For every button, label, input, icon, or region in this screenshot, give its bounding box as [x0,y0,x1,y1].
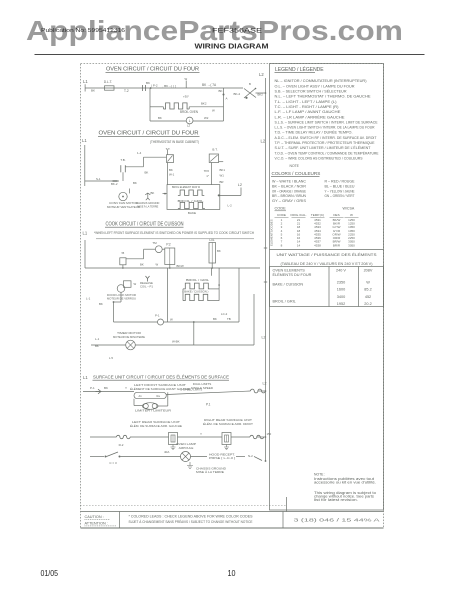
svg-text:BK: BK [169,168,173,172]
wire L2 drop right (section 3) [253,294,255,345]
wire jog to TM [126,258,144,260]
frame bottom solid border [81,527,384,529]
svg-text:150: 150 [267,432,272,436]
junction and wire to L2 (section 2) [218,194,220,196]
svg-text:A.D.C. – ELEM. SWITCH RF / INT: A.D.C. – ELEM. SWITCH RF / INTERR. DE SU… [275,136,378,140]
svg-text:ATTENTION :: ATTENTION : [85,522,108,526]
bake element coil [178,202,205,208]
svg-text:2350: 2350 [337,281,345,285]
svg-text:L.L.S. – OVEN LIGHT SWITCH / I: L.L.S. – OVEN LIGHT SWITCH / INTERR. DE … [275,126,375,130]
svg-text:452: 452 [365,295,371,299]
svg-text:BL – BLUE / BLEU: BL – BLUE / BLEU [325,184,355,188]
junction node BK [150,87,152,89]
svg-text:LIMITER / LIMITEUR: LIMITER / LIMITEUR [135,409,172,413]
svg-text:PRISE [ L-C-3 ]: PRISE [ L-C-3 ] [209,456,235,460]
wire main bus section 1 [85,87,223,89]
legend panel border [270,64,384,511]
svg-text:BROIL OVEN: BROIL OVEN [180,110,199,114]
svg-text:BK2: BK2 [201,102,207,106]
ground right rear [224,445,229,450]
row 2 wire mid [178,436,223,438]
relay drop wire (section 3) [167,268,169,322]
row 3 wire right [191,456,208,458]
oven lamp row (section 1) [150,120,186,122]
svg-text:+30°: +30° [183,95,189,99]
svg-text:W: W [350,213,353,217]
svg-text:2-SPEED LIMITS: 2-SPEED LIMITS [181,388,203,392]
svg-text:S-1: S-1 [96,177,101,181]
svg-text:L1: L1 [82,138,87,143]
relay contact pair 1 [142,85,144,91]
svg-text:T.P. – THERMAL PROTECTOR / PRO: T.P. – THERMAL PROTECTOR / PROTECTEUR TH… [275,141,375,145]
svg-text:MISE À LA TERRE: MISE À LA TERRE [137,204,158,208]
svg-text:D.L.T.: D.L.T. [104,80,112,84]
svg-text:CAUTION :: CAUTION : [85,515,104,519]
svg-text:ÉLÉM. DE SURFACE ARR. GAUCHE: ÉLÉM. DE SURFACE ARR. GAUCHE [130,423,182,428]
svg-text:Y: Y [200,432,202,436]
limiter connection wires [133,399,135,406]
broil element (section 1) [150,106,163,108]
svg-text:BR/R: BR/R [333,243,341,247]
chassis ground row 3 [187,462,193,469]
svg-text:BK: BK [213,317,217,321]
svg-text:Ra: Ra [157,394,161,398]
svg-text:BK1: BK1 [220,168,226,172]
svg-text:(THERMOSTAT IN BASE CABINET): (THERMOSTAT IN BASE CABINET) [150,140,199,144]
bus wire (section 3) [85,267,260,269]
svg-text:T.C. – LIGHT - RIGHT / LAMPE (: T.C. – LIGHT - RIGHT / LAMPE (R) [275,105,340,109]
svg-text:BROIL / GRIL: BROIL / GRIL [273,300,296,304]
svg-text:TM: TM [152,241,157,245]
svg-text:LC-2: LC-2 [221,312,228,316]
svg-text:Y – YELLOW / JAUNE: Y – YELLOW / JAUNE [325,189,355,193]
svg-text:T-2: T-2 [124,89,129,93]
footer cell divider 2 [282,512,284,529]
wattage table box [270,267,384,307]
svg-text:8: 8 [281,243,283,247]
release coil symbol [146,276,150,282]
svg-text:C = 3: C = 3 [109,461,117,465]
svg-text:T.O.D. – OVEN TEMP CONTROL / C: T.O.D. – OVEN TEMP CONTROL / COMMANDE DE… [275,150,379,155]
svg-text:B.T.: B.T. [212,148,217,152]
svg-text:L2: L2 [187,124,191,128]
svg-text:Publication No: 5995412316: Publication No: 5995412316 [41,28,125,34]
row 1 wire right [166,391,246,394]
svg-text:P-1: P-1 [155,314,160,318]
svg-text:( BAKE / CUISSON ): ( BAKE / CUISSON ) [183,290,209,294]
timer motor drop (section 3) [193,322,195,345]
footer dotted separator [81,505,287,507]
svg-text:NOTE :: NOTE : [314,473,325,477]
ground arrow symbol (section 2) [145,193,150,200]
svg-text:01/05: 01/05 [41,568,59,578]
svg-text:OVEN CIRCUIT / CIRCUIT DU FOUR: OVEN CIRCUIT / CIRCUIT DU FOUR [106,67,199,73]
svg-text:3 (18) 046 / 15 44% A: 3 (18) 046 / 15 44% A [294,518,380,523]
svg-text:1952: 1952 [337,302,345,306]
svg-text:NL – IGNITOR / COMMUTATEUR (IN: NL – IGNITOR / COMMUTATEUR (INTERRUPTEUR… [275,79,368,83]
svg-text:208V: 208V [364,269,373,273]
svg-text:L-2: L-2 [228,204,233,208]
svg-text:L: L [189,119,191,123]
svg-text:W: W [185,77,188,81]
svg-text:L1: L1 [83,375,88,380]
svg-text:T.L. – LIGHT - LEFT / LAMPE (L: T.L. – LIGHT - LEFT / LAMPE (L) [275,100,338,104]
svg-text:COIL – P1: COIL – P1 [140,284,153,288]
svg-text:L1: L1 [83,79,88,84]
svg-text:COOK CIRCUIT / CIRCUIT DE CUIS: COOK CIRCUIT / CIRCUIT DE CUISSON [106,222,184,228]
svg-text:AMPOULE: AMPOULE [179,446,194,450]
svg-text:W: W [170,318,173,322]
svg-text:L.R. – LR LAMP / ARRIÈRE GAUCH: L.R. – LR LAMP / ARRIÈRE GAUCHE [275,114,346,119]
svg-text:T.D. – TIME DELAY RELAY / DURÉ: T.D. – TIME DELAY RELAY / DURÉE TEMPO. [275,130,353,135]
svg-text:Y: Y [125,386,127,390]
svg-text:BK – BLACK / NOIR: BK – BLACK / NOIR [272,184,306,188]
svg-text:L01: L01 [209,238,215,242]
svg-text:W-1: W-1 [169,173,175,177]
svg-text:DES: DES [333,213,339,217]
svg-text:(TABLEAU DE 240 V / VALEURS EN: (TABLEAU DE 240 V / VALEURS EN 240 V ET … [281,262,373,266]
svg-text:B: B [249,82,251,86]
svg-text:GN – GREEN / VERT: GN – GREEN / VERT [325,194,356,198]
svg-text:BK: BK [91,89,95,93]
row 2 right resistor squiggle [250,435,264,438]
L2 bus tick marks [264,247,267,249]
svg-text:BK: BK [133,181,137,185]
svg-text:A1: A1 [139,394,143,398]
svg-text:accessoire ou kit en vue d'uti: accessoire ou kit en vue d'utilité. [314,480,376,484]
svg-text:40A: 40A [164,450,169,454]
row 1 right resistor squiggle [251,389,266,393]
svg-text:W: W [212,109,215,113]
svg-text:BR: BR [220,180,224,184]
left front surface unit (stadium) [134,392,166,398]
svg-text:W-BK: W-BK [172,340,180,344]
svg-text:L.5: L.5 [109,356,113,360]
svg-text:*WHEN LEFT FRONT SURFACE ELEME: *WHEN LEFT FRONT SURFACE ELEMENT IS SWIT… [94,231,255,235]
svg-text:COLORS / COULEURS: COLORS / COULEURS [272,171,321,176]
wire L1 drop (section 2) [84,145,86,186]
svg-text:list for latest revision.: list for latest revision. [314,498,358,502]
svg-text:CODE: CODE [275,206,287,211]
svg-text:240 V: 240 V [336,269,346,273]
svg-text:ELEMENTS/CODES: ELEMENTS/CODES [270,219,274,246]
svg-text:N-2: N-2 [248,454,253,458]
timer contact circle TM [155,246,162,253]
svg-text:LEGEND / LÉGENDE: LEGEND / LÉGENDE [275,66,324,73]
svg-text:L2: L2 [261,139,266,144]
svg-text:L2: L2 [259,72,264,77]
header rule [35,54,425,56]
svg-text:BROIL ELEMENT 3400 W: BROIL ELEMENT 3400 W [172,185,200,189]
svg-text:FEF356ASE: FEF356ASE [212,28,262,34]
svg-text:BK →( 7A: BK →( 7A [202,83,217,87]
oven element branch vertical right [223,88,225,121]
svg-text:1-4: 1-4 [137,151,142,155]
svg-text:BK: BK [146,81,150,85]
svg-text:S.B. – SELECTOR SWITCH / SÉLEC: S.B. – SELECTOR SWITCH / SÉLECTEUR [275,89,347,94]
svg-text:L2: L2 [262,336,266,340]
svg-text:MOTEUR VENTILATEUR: MOTEUR VENTILATEUR [107,205,140,209]
svg-text:P.1: P.1 [206,403,211,407]
svg-text:1°: 1° [206,174,209,178]
svg-text:T.B.: T.B. [120,158,125,162]
svg-text:BROIL / GRIL: BROIL / GRIL [186,278,209,282]
lamp loop wires (section 3) [114,301,122,303]
svg-text:ÉLÉMENTS DU FOUR: ÉLÉMENTS DU FOUR [273,272,312,277]
svg-text:S.U.T. – SURF. UNIT LIMITER /: S.U.T. – SURF. UNIT LIMITER / LIMITEUR D… [275,145,372,150]
row 1 wire left [83,391,134,393]
svg-text:ORIG./CAL.: ORIG./CAL. [290,213,307,217]
svg-text:N.L. – LEFT THERMOSTAT / THERM: N.L. – LEFT THERMOSTAT / THERMO. DE GAUC… [275,95,371,99]
svg-text:10: 10 [228,568,236,578]
wire to L2 (section 1) [256,92,266,94]
indicator lamp (section 3) [158,319,164,325]
svg-text:W1: W1 [220,174,225,178]
convection motor (section 2) [119,192,127,200]
svg-text:3050: 3050 [348,243,355,247]
wire L1 drop [84,84,86,91]
svg-text:L-1: L-1 [95,337,100,341]
svg-text:L.F. – LF LAMP / AVANT GAUCHE: L.F. – LF LAMP / AVANT GAUCHE [275,110,342,114]
svg-text:P.2: P.2 [166,243,171,247]
svg-text:BK-2: BK-2 [111,182,118,186]
svg-text:BK/W: BK/W [177,264,185,268]
wire L1 drop (section 3) [84,240,86,268]
wire jog to T.T. [125,166,143,168]
row 2 wire [90,436,117,438]
svg-text:SUJET À CHANGEMENT SANS PRÉAVI: SUJET À CHANGEMENT SANS PRÉAVIS / SUBJEC… [129,519,254,524]
oven lamp row 3 [181,452,191,462]
svg-text:W2: W2 [204,116,209,120]
wire drops to element (section 3) [211,268,213,276]
wire B.T. down [211,163,213,185]
svg-text:BR – BROWN / BRUN: BR – BROWN / BRUN [272,194,306,198]
legend panel divider [270,249,384,251]
junction node A [223,94,225,96]
svg-text:BAKE: BAKE [188,211,196,215]
component drop wires [169,265,171,269]
svg-text:MISE À LA TERRE: MISE À LA TERRE [196,470,224,474]
svg-text:1600: 1600 [337,288,345,292]
broil element coil [178,190,204,195]
svg-text:, BK→( ) [: , BK→( ) [ [163,84,176,88]
selector switch (section 1) [224,87,244,89]
row 2 left resistor squiggle [117,435,131,438]
svg-text:BK: BK [99,302,103,306]
fuse arrow row1 [96,389,102,394]
svg-text:L1: L1 [83,231,88,236]
svg-text:20.2: 20.2 [364,302,371,306]
svg-text:BK: BK [140,263,144,267]
footer cell divider 1 [119,512,121,529]
svg-text:BK: BK [158,116,162,120]
wire to contact (section 2) [85,180,119,182]
svg-text:UNIT WATTAGE / PUISSANCE DES É: UNIT WATTAGE / PUISSANCE DES ÉLÉMENTS [277,252,377,257]
wire T.T. down to element [167,163,169,185]
ground left rear [171,445,176,450]
svg-text:L-1: L-1 [86,297,91,301]
svg-text:R-2: R-2 [119,443,124,447]
svg-text:↑B: ↑B [121,251,125,255]
svg-text:14: 14 [297,243,301,247]
svg-text:BK: BK [219,89,223,93]
svg-text:3400: 3400 [337,295,345,299]
right rear element switch box [222,433,231,445]
door lock motor (section 3) [124,281,132,288]
svg-text:OR – ORANGE / ORANGE: OR – ORANGE / ORANGE [272,189,306,193]
svg-text:TB: TB [227,317,231,321]
svg-text:4538: 4538 [314,243,321,247]
svg-text:P-1: P-1 [90,386,95,390]
svg-text:( P-2: ( P-2 [151,83,158,87]
L2 bus wire [265,78,267,461]
svg-text:R – RED / ROUGE: R – RED / ROUGE [325,180,356,184]
svg-text:NOTE: NOTE [290,164,300,168]
svg-text:BK: BK [217,249,221,253]
terminal W stub [185,81,187,88]
svg-text:BAKE / CUISSON: BAKE / CUISSON [273,283,304,287]
wire motor stub [128,189,130,194]
limiter (oval with contacts) [142,403,158,410]
svg-text:SURFACE UNIT CIRCUIT / CIRCUIT: SURFACE UNIT CIRCUIT / CIRCUIT DES ÉLÉME… [93,374,229,380]
note area divider [286,497,288,512]
svg-text:BK: BK [104,386,108,390]
svg-text:W: W [156,263,159,267]
svg-text:L2: L2 [263,382,267,386]
svg-text:MOTEUR DE VERROU: MOTEUR DE VERROU [107,296,136,300]
svg-text:CODE: CODE [277,213,286,217]
diagram frame [81,64,384,529]
footer bar top border [81,511,384,513]
svg-text:BK: BK [151,191,155,195]
svg-text:L2: L2 [238,183,242,187]
svg-text:BK: BK [145,171,149,175]
svg-text:T.T.: T.T. [166,147,171,151]
svg-text:O.L. – OVEN LIGHT ASSY / LAMPE: O.L. – OVEN LIGHT ASSY / LAMPE DU FOUR [275,84,355,88]
oven element box (section 2) [167,185,220,210]
svg-text:A: A [226,97,228,101]
wire drop x239 (section 3) [238,268,240,322]
svg-text:S.L.S. – SURFACE LIMIT SWITCH: S.L.S. – SURFACE LIMIT SWITCH / INTERR. … [275,120,378,124]
left element terminal [164,193,166,195]
svg-text:BK: BK [95,344,99,348]
svg-text:85.2: 85.2 [364,288,371,292]
svg-text:BK-2: BK-2 [234,92,241,96]
row 2 wire right [231,436,250,438]
svg-text:WIRING DIAGRAM: WIRING DIAGRAM [195,44,269,51]
wire lamp to right (section 3) [164,321,240,323]
row 3 wire [90,456,104,458]
svg-text:W: W [366,281,370,285]
svg-text:W: W [134,282,137,286]
svg-text:TP2: TP2 [204,169,210,173]
svg-text:TEMP.(C): TEMP.(C) [311,213,324,217]
svg-text:OVEN CIRCUIT / CIRCUIT DU FOUR: OVEN CIRCUIT / CIRCUIT DU FOUR [99,131,199,137]
svg-text:* COLORED LEADS : CHECK LEGEND: * COLORED LEADS : CHECK LEGEND ABOVE FOR… [129,515,254,519]
svg-text:W – WHITE / BLANC: W – WHITE / BLANC [272,180,306,184]
light switch row 3 [105,456,107,458]
svg-text:GY – GRAY / GRIS: GY – GRAY / GRIS [272,199,307,203]
left rear element switch box [169,433,178,445]
oven element branch vertical left [149,88,151,121]
svg-text:V.C.O. – WIRE COLORS AS DISTRI: V.C.O. – WIRE COLORS AS DISTRIBUTED / CO… [275,156,363,160]
svg-text:MOTEUR DE MINUTERIE: MOTEUR DE MINUTERIE [113,335,145,339]
svg-text:W/CSA: W/CSA [343,207,355,211]
svg-text:ÉLÉM. DE SURFACE ARR. DROIT: ÉLÉM. DE SURFACE ARR. DROIT [203,421,253,426]
